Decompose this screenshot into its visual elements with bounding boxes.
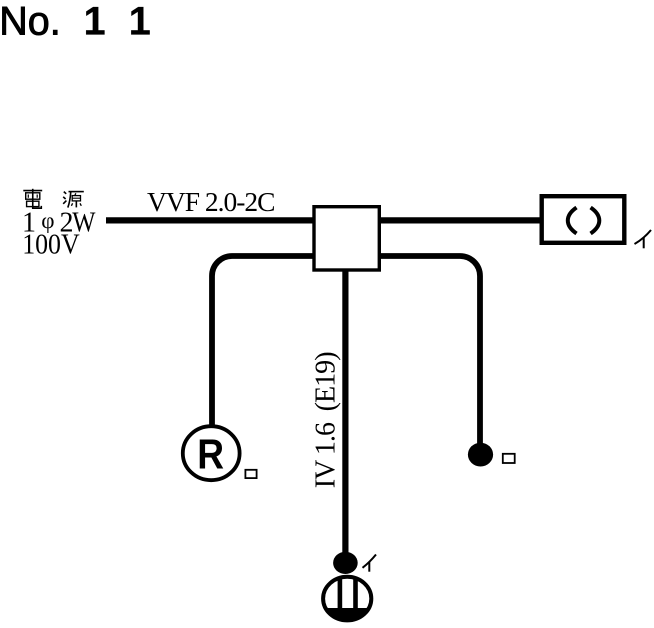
wire conduit IV1.6 E19 down [342,269,348,557]
power source label 電源 1φ2W 100V [22,189,96,261]
svg-text:R: R [197,430,224,477]
switch i (filled dot) [333,552,358,574]
lamp receptacle R [183,426,240,480]
switch ro (filled dot) [468,443,493,467]
svg-text:No.: No. [0,0,61,43]
svg-text:IV 1.6 (E19): IV 1.6 (E19) [311,352,342,489]
kanji 電 [23,189,42,208]
outlet lamp symbol (circle with bars and filled base) [320,574,375,624]
wire junction box to rosette [378,217,542,223]
svg-text:VVF 2.0-2C: VVF 2.0-2C [147,186,275,217]
wire left branch to lamp receptacle [212,256,315,425]
wire right branch to switch ro [378,256,480,448]
svg-text:1: 1 [129,0,151,43]
svg-text:100V: 100V [22,229,79,260]
kanji 源 [63,192,84,208]
label i katakana at rosette [635,230,652,248]
title No. 11 [0,0,151,43]
text 1φ2W [22,207,96,238]
label i katakana at switch i [363,555,377,572]
svg-text:1: 1 [84,0,106,43]
ceiling rosette rectangular [542,196,625,243]
label ro katakana at switch ro [503,454,515,463]
label ro katakana at lamp receptacle [245,470,256,478]
junction box (outlet box) [314,207,379,270]
wire power to junction box [106,217,316,223]
